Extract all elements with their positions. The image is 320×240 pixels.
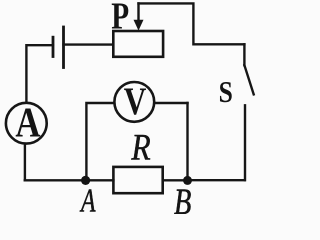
wire bottom-right corner to node B <box>188 179 245 181</box>
rheostat wiper arrow shaft <box>137 3 139 21</box>
switch S upper lead <box>243 44 245 65</box>
svg-text:R: R <box>131 128 151 169</box>
wire voltmeter right lead <box>155 102 187 104</box>
svg-text:S: S <box>219 74 233 109</box>
svg-text:B: B <box>174 181 191 214</box>
rheostat P body <box>113 31 163 57</box>
resistor R body <box>113 167 162 193</box>
node A junction dot <box>81 176 90 185</box>
wire node A to resistor left terminal <box>86 179 114 181</box>
voltmeter V circle <box>114 82 154 122</box>
wire battery to rheostat left terminal <box>64 43 114 45</box>
svg-text:A: A <box>15 101 41 147</box>
wire voltmeter left lead down to node A <box>86 103 113 177</box>
svg-text:V: V <box>124 79 147 123</box>
wire node A to bottom-left corner <box>25 179 86 181</box>
battery short plate (negative) <box>52 37 55 56</box>
battery long plate (positive) <box>62 27 65 68</box>
switch S blade (open) <box>244 65 253 94</box>
switch S lower lead down to bottom-right corner <box>244 105 246 180</box>
ammeter A circle <box>6 103 47 144</box>
wire resistor right terminal to node B <box>163 179 188 181</box>
rheostat wiper arrowhead <box>134 20 144 31</box>
wire bottom-left corner up to ammeter <box>24 145 26 180</box>
svg-text:A: A <box>80 183 96 214</box>
svg-text:P: P <box>111 0 129 38</box>
wire top-left corner (battery to ammeter) <box>26 45 53 101</box>
wire wiper to top-right run and down to switch <box>139 3 245 44</box>
wire node B up to voltmeter right corner <box>186 103 188 180</box>
node B junction dot <box>183 176 192 185</box>
